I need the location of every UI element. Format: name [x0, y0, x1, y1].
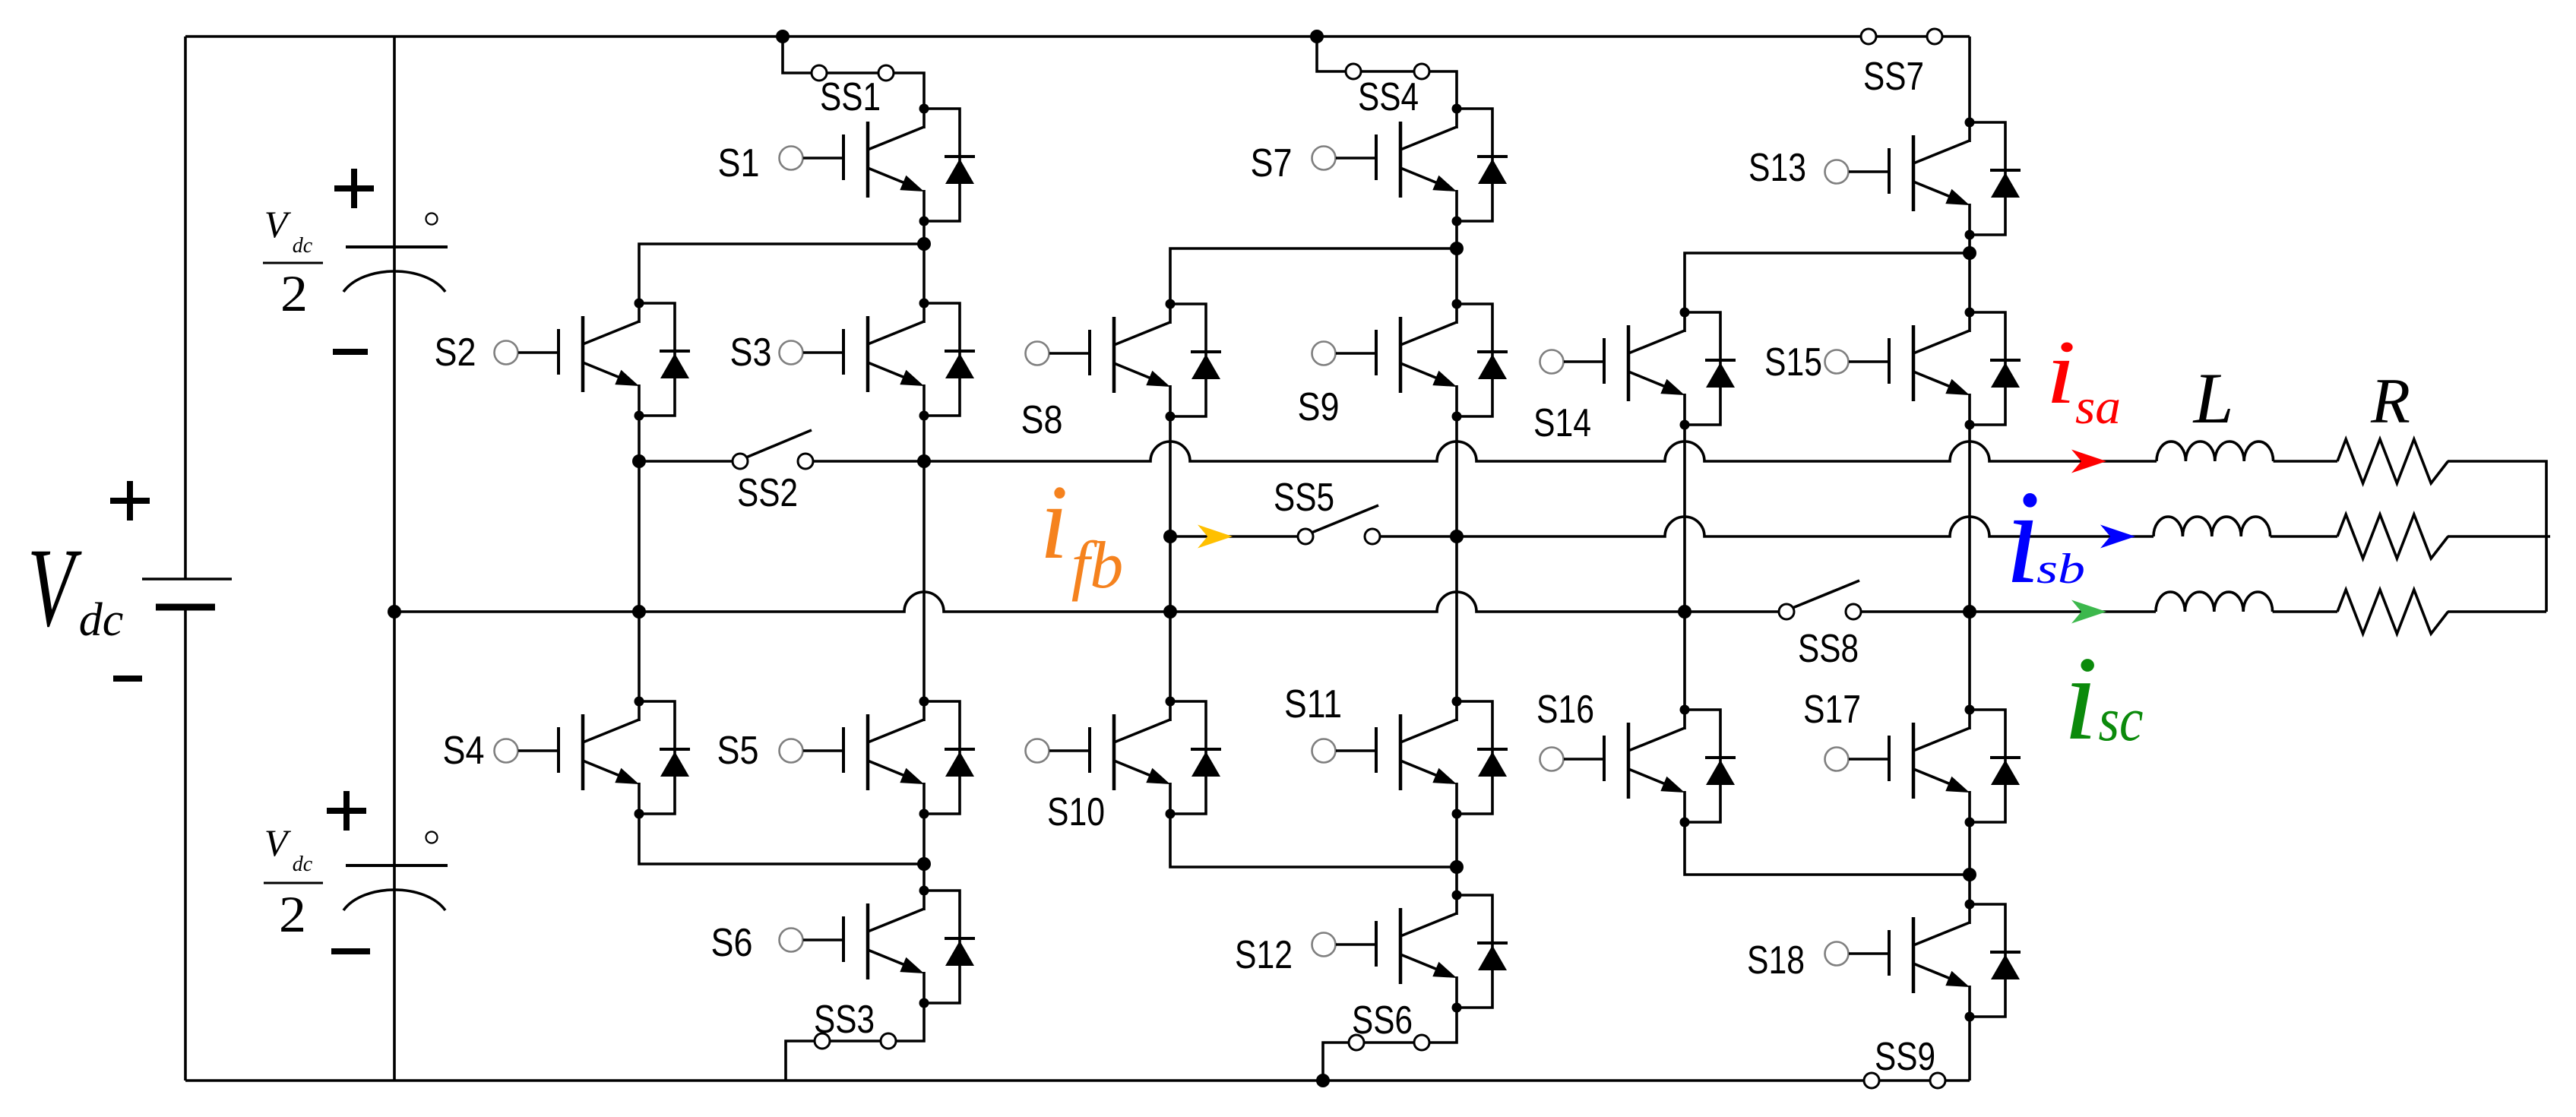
junction S8 rail / neutral bus	[1163, 605, 1177, 619]
wire: resistor to load star point phase c	[2448, 610, 2546, 613]
svg-text:S17: S17	[1803, 688, 1861, 732]
transistor S7 (IGBT with antiparallel diode)	[1312, 104, 1508, 226]
svg-text:SS8: SS8	[1798, 627, 1859, 671]
transistor S13 (IGBT with antiparallel diode)	[1825, 118, 2021, 240]
wire: S5 emitter through lower junction to S6 collector	[922, 814, 926, 891]
wire: top rail tap to SS4	[1317, 36, 1346, 71]
DC-link capacitor rail	[393, 36, 396, 1081]
wire: S2 rail from neutral bus to S4 collector	[638, 612, 641, 701]
junction leg1 rail / phase-a bus	[917, 454, 931, 468]
wire: leg2 rail junction to S9 collector	[1455, 248, 1458, 305]
junction SS6 / bottom rail	[1316, 1074, 1330, 1087]
bottom DC- rail	[185, 1079, 1864, 1082]
wire: leg3 rail from phase-c bus to S17 collector	[1968, 612, 1971, 710]
switch SS5 (open): terminal circles and blade	[1298, 505, 1380, 544]
transistor S16 (IGBT with antiparallel diode)	[1540, 705, 1736, 827]
left source rail lower	[184, 606, 187, 1081]
wire: S18 emitter to bottom rail corner	[1968, 1017, 1971, 1081]
wire: S17 emitter through lower junction to S18 collector	[1968, 822, 1971, 904]
svg-text:sa: sa	[2075, 379, 2121, 435]
capacitor C2 polarity circle	[426, 832, 438, 843]
svg-text:S12: S12	[1235, 933, 1293, 977]
svg-text:i: i	[2005, 462, 2040, 612]
wire: S2 emitter to phase-a bus	[638, 416, 641, 461]
svg-text:V: V	[27, 526, 82, 650]
battery Vdc negative plate	[156, 604, 215, 611]
junction leg2 lower mid	[1450, 860, 1464, 874]
phase-a output bus with hops to load	[924, 441, 2157, 461]
switch SS1 (closed): terminal circles and link	[812, 65, 894, 81]
battery + polarity mark	[110, 498, 150, 504]
svg-text:S2: S2	[435, 331, 476, 375]
phase-b output bus from S10 rail to SS5	[1170, 535, 1298, 538]
svg-text:S3: S3	[730, 331, 772, 375]
junction leg3 rail / phase-c bus	[1963, 605, 1976, 619]
wire: S9 emitter down across phase-a bus to S11 collector	[1455, 417, 1458, 701]
resistor R phase c	[2337, 590, 2448, 634]
resistor R phase a	[2337, 439, 2448, 483]
wire: inductor to resistor phase c	[2273, 610, 2337, 613]
svg-text:L: L	[2192, 358, 2234, 438]
current arrow i_sb	[2100, 525, 2135, 549]
phase-a output bus from S2 rail to SS2	[639, 460, 733, 463]
wire: S1 emitter to mid junction	[922, 221, 926, 244]
capacitor C1 curved plate	[343, 271, 445, 292]
transistor S5 (IGBT with antiparallel diode)	[780, 697, 976, 819]
wire: S10 emitter to lower link	[1170, 815, 1457, 867]
wire: S15 emitter down across phase-a and phase-b buses to phase-c junction	[1968, 425, 1971, 612]
wire: inductor to resistor phase b	[2271, 535, 2337, 538]
junction leg3 upper mid	[1963, 246, 1976, 260]
junction S2 rail / phase-a bus	[632, 454, 646, 468]
junction leg1 lower mid	[917, 857, 931, 871]
inductor L phase b	[2154, 517, 2271, 536]
capacitor C2 curved plate	[343, 890, 445, 910]
wire: S3 emitter to phase-a bus	[922, 416, 926, 461]
svg-text:S6: S6	[711, 921, 753, 965]
capacitor C2 - mark	[331, 948, 370, 954]
switch SS7 (closed): terminal circles and link	[1861, 29, 1942, 44]
wire: leg3 upper link to S14 collector	[1685, 253, 1970, 312]
junction S14 rail / neutral bus	[1678, 605, 1691, 619]
transistor S9 (IGBT with antiparallel diode)	[1312, 299, 1508, 422]
wire: S12 emitter to SS6	[1429, 1008, 1457, 1043]
wire: S6 emitter to SS3	[896, 1003, 924, 1041]
wire: S11 emitter through lower junction to S12 collector	[1455, 815, 1458, 895]
transistor S17 (IGBT with antiparallel diode)	[1825, 705, 2021, 827]
battery Vdc positive plate	[142, 577, 232, 581]
wire: S4 emitter to lower link	[639, 814, 924, 864]
transistor S2 (IGBT with antiparallel diode)	[495, 299, 691, 421]
svg-text:sb: sb	[2036, 546, 2085, 593]
switch SS2 (open): terminal circles and blade	[733, 430, 813, 469]
junction S2 rail / neutral bus	[632, 605, 646, 619]
phase-c bus from SS8 to leg3 rail and load	[1861, 610, 2156, 613]
transistor S11 (IGBT with antiparallel diode)	[1312, 697, 1508, 819]
wire: top rail tap to SS1	[783, 36, 812, 73]
svg-text:S16: S16	[1536, 688, 1594, 732]
switch SS3 (closed): terminal circles and link	[815, 1033, 896, 1049]
capacitor C1 + mark	[334, 185, 374, 191]
wire: SS4 to S7 collector	[1429, 71, 1457, 109]
wire: leg1 rail from phase-a bus down to S5 collector	[922, 461, 926, 701]
phase-b output bus with hops to load	[1457, 517, 2154, 536]
svg-text:S15: S15	[1764, 340, 1822, 384]
svg-text:dc: dc	[293, 234, 313, 258]
phase-b output bus from SS5 to leg2 rail	[1380, 535, 1457, 538]
svg-text:S8: S8	[1021, 398, 1063, 442]
wire: S7 emitter to mid junction	[1455, 221, 1458, 248]
wire: S14 emitter down across phase-b bus to neutral bus	[1683, 425, 1686, 612]
svg-text:S14: S14	[1533, 401, 1591, 445]
svg-text:dc: dc	[79, 594, 124, 646]
resistor R phase b	[2337, 514, 2448, 558]
current arrow i_fb	[1198, 525, 1233, 549]
svg-text:i: i	[2046, 321, 2076, 422]
junction S8 rail / phase-b bus (i_fb node)	[1163, 530, 1177, 543]
svg-text:SS1: SS1	[820, 75, 881, 119]
svg-text:2: 2	[280, 264, 308, 322]
wire: SS7 corner down to S13 collector	[1968, 36, 1971, 122]
svg-text:SS9: SS9	[1875, 1035, 1935, 1079]
junction leg1 upper mid	[917, 237, 931, 251]
switch SS9 (closed): terminal circles and link	[1864, 1073, 1945, 1088]
svg-text:S4: S4	[443, 729, 485, 773]
svg-text:SS4: SS4	[1358, 75, 1419, 119]
left source rail upper	[184, 36, 187, 579]
wire: leg2 upper link to S8 collector	[1170, 248, 1457, 305]
wire: S8 rail from neutral bus to S10 collector	[1169, 612, 1172, 701]
svg-text:S9: S9	[1298, 385, 1340, 429]
phase-a output bus from SS2 to leg1 rail	[813, 460, 924, 463]
svg-text:sc: sc	[2099, 685, 2144, 754]
svg-text:S5: S5	[717, 729, 759, 773]
transistor S3 (IGBT with antiparallel diode)	[780, 299, 976, 421]
junction on top rail at leg1	[776, 30, 790, 43]
svg-text:SS3: SS3	[814, 998, 875, 1042]
capacitor C1 polarity circle	[426, 214, 438, 225]
inductor L phase c	[2156, 592, 2273, 612]
capacitor C2 top plate	[346, 864, 448, 867]
top DC+ rail	[185, 35, 1861, 38]
svg-text:dc: dc	[293, 853, 313, 876]
wire: inductor to resistor phase a	[2274, 460, 2337, 463]
svg-text:S18: S18	[1747, 938, 1805, 983]
transistor S10 (IGBT with antiparallel diode)	[1026, 697, 1222, 819]
wire: leg3 rail junction to S15 collector	[1968, 253, 1971, 312]
top DC+ rail segment after SS7	[1942, 35, 1970, 38]
inductor L phase a	[2157, 441, 2274, 461]
svg-text:2: 2	[279, 885, 306, 943]
wire: leg1 upper link to S2 collector	[639, 244, 924, 303]
current arrow i_sc	[2071, 600, 2106, 624]
svg-text:S10: S10	[1047, 790, 1105, 834]
junction leg2 rail / phase-b bus	[1450, 530, 1464, 543]
wire: S13 emitter to mid junction	[1968, 235, 1971, 253]
neutral bus from DC midpoint to SS8	[394, 592, 1779, 612]
svg-text:S13: S13	[1748, 146, 1806, 190]
current arrow i_sa	[2071, 450, 2106, 473]
wire: resistor to load star point phase a	[2448, 461, 2546, 612]
svg-text:R: R	[2370, 365, 2410, 437]
svg-text:SS6: SS6	[1352, 998, 1413, 1043]
transistor S15 (IGBT with antiparallel diode)	[1825, 308, 2021, 430]
battery - polarity mark	[113, 676, 142, 682]
wire: SS3 to bottom rail	[786, 1041, 815, 1081]
capacitor C1 - mark	[333, 349, 368, 355]
wire: S8 rail from phase-b bus to neutral bus	[1169, 536, 1172, 612]
svg-text:SS2: SS2	[737, 471, 798, 515]
transistor S6 (IGBT with antiparallel diode)	[780, 886, 976, 1008]
transistor S4 (IGBT with antiparallel diode)	[495, 697, 691, 819]
junction leg2 upper mid	[1450, 242, 1464, 255]
capacitor C2 + mark	[327, 808, 366, 814]
svg-text:SS7: SS7	[1863, 55, 1924, 99]
transistor S12 (IGBT with antiparallel diode)	[1312, 891, 1508, 1013]
wire: S14 rail from neutral bus to S16 collector	[1683, 612, 1686, 710]
svg-text:i: i	[2063, 631, 2098, 764]
transistor S1 (IGBT with antiparallel diode)	[780, 104, 976, 226]
transistor S18 (IGBT with antiparallel diode)	[1825, 900, 2021, 1022]
switch SS6 (closed): terminal circles and link	[1349, 1035, 1429, 1050]
svg-text:S7: S7	[1251, 141, 1293, 185]
bottom DC- rail segment after SS9	[1945, 1079, 1970, 1082]
transistor S14 (IGBT with antiparallel diode)	[1540, 308, 1736, 430]
wire: SS6 to bottom rail	[1323, 1043, 1349, 1081]
wire: SS1 to S1 collector	[894, 73, 924, 109]
transistor S8 (IGBT with antiparallel diode)	[1026, 299, 1222, 422]
wire: leg1 rail junction to S3 collector	[922, 244, 926, 303]
wire: resistor to load star point phase b	[2448, 535, 2550, 538]
switch SS8 (open): terminal circles and blade	[1779, 581, 1861, 619]
svg-text:S11: S11	[1284, 682, 1342, 726]
svg-text:SS5: SS5	[1274, 476, 1334, 520]
svg-text:S1: S1	[718, 141, 760, 185]
capacitor C1 top plate	[346, 245, 448, 248]
switch SS4 (closed): terminal circles and link	[1346, 64, 1429, 79]
wire: S8 emitter to phase-b bus	[1169, 417, 1172, 536]
wire: S16 emitter to lower link	[1685, 822, 1970, 875]
svg-text:i: i	[1040, 464, 1068, 581]
junction DC midpoint / neutral bus	[388, 605, 401, 619]
junction leg3 lower mid	[1963, 868, 1976, 881]
junction on top rail at leg2	[1310, 30, 1324, 43]
wire: S2 rail from phase-a bus to neutral bus	[638, 461, 641, 612]
svg-text:fb: fb	[1071, 529, 1123, 603]
